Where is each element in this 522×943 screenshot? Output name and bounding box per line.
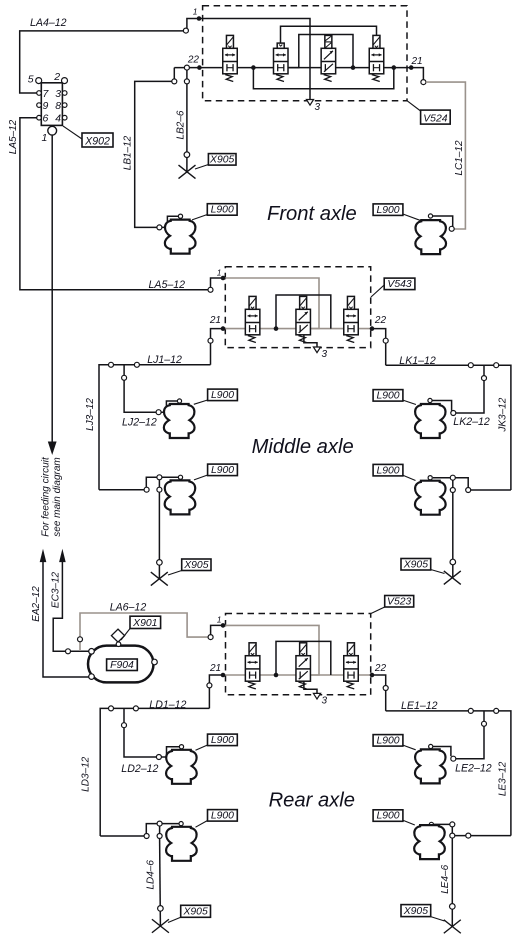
termination X905 (mid left) xyxy=(151,572,168,586)
wire pin21 exit (rear) xyxy=(209,675,223,708)
svg-text:3: 3 xyxy=(322,349,328,360)
dashed enclosure V543 (middle axle valve block) xyxy=(225,267,370,348)
leader line X905 (rear right) xyxy=(431,917,445,921)
label box V543 xyxy=(384,278,415,290)
leader line L900 (mid right upper) xyxy=(403,400,416,404)
wire LK (JK3) to bellows xyxy=(471,489,511,491)
svg-text:LK1–12: LK1–12 xyxy=(399,355,436,367)
terminal circle tee (rear left) xyxy=(122,723,127,728)
leader line L900 (rear left upper) xyxy=(196,745,208,750)
wire LJ1-12 xyxy=(99,365,211,490)
solenoid valve V1 (front) xyxy=(223,35,238,81)
wire tee to LD2-12 xyxy=(124,708,157,757)
terminal circle pin22 exit (middle) xyxy=(383,338,388,343)
svg-text:EC3–12: EC3–12 xyxy=(50,571,61,608)
air spring L900 (front right) xyxy=(415,220,446,254)
terminal circle tee (rear right) xyxy=(482,721,487,726)
leader line X905 (mid left) xyxy=(168,571,182,576)
label box L900 (mid right upper) xyxy=(373,390,403,402)
svg-text:1: 1 xyxy=(193,7,198,17)
svg-text:LJ2–12: LJ2–12 xyxy=(122,417,157,429)
terminal circle LJ2 at bellows xyxy=(156,410,161,415)
wire exhaust (middle) xyxy=(304,335,317,347)
leader line X902 xyxy=(63,126,82,139)
junction dot C (front rail) xyxy=(392,65,397,70)
wire pilot line valve2-valve4 (front) xyxy=(281,26,377,43)
terminal circle LA5 at middle block xyxy=(208,287,213,292)
junction dot pin21 (middle) xyxy=(221,326,226,331)
wire pin21 exit (front) xyxy=(411,68,423,80)
svg-text:LE3–12: LE3–12 xyxy=(498,761,509,796)
label box L900 (mid left upper) xyxy=(208,389,238,401)
svg-text:6: 6 xyxy=(43,113,49,125)
connector circles LE1-12 xyxy=(468,708,473,713)
wire corner to pipe (mid right lower) xyxy=(433,478,468,488)
wire tee to LK2-12 xyxy=(456,365,484,413)
svg-text:L900: L900 xyxy=(376,465,399,476)
wire LA5-12 xyxy=(20,118,211,290)
pilot valve V2 (front) xyxy=(274,43,289,81)
terminal circle LE2 at bellows xyxy=(451,756,456,761)
label box L900 (front left) xyxy=(207,204,237,216)
terminal circle LC1 xyxy=(421,80,426,85)
svg-text:EA2–12: EA2–12 xyxy=(31,586,42,622)
svg-text:LE2–12: LE2–12 xyxy=(455,763,492,775)
wire valve2-valve3 bypass (front) xyxy=(288,35,353,68)
terminal circle X901 xyxy=(116,642,121,647)
label box X905 (rear left) xyxy=(181,905,211,917)
rail wire 21-22 (middle, gray) xyxy=(223,328,372,330)
leader line L900 (rear right lower) xyxy=(403,820,415,825)
leader line L900 (front left) xyxy=(192,215,207,220)
svg-text:LD1–12: LD1–12 xyxy=(149,699,186,711)
exhaust port 3 (front) xyxy=(306,100,313,106)
wire pin1 to valve2 (middle, gray) xyxy=(223,278,319,329)
terminal circle LA4-12 at block xyxy=(183,28,188,33)
connector circles LD1-12 xyxy=(109,706,114,711)
leader line X905 (mid right) xyxy=(431,570,445,574)
svg-text:21: 21 xyxy=(411,56,423,67)
air spring L900 (middle left lower) xyxy=(165,480,196,514)
svg-text:LJ3–12: LJ3–12 xyxy=(85,398,96,431)
pipe to bellows (front left) xyxy=(162,216,178,227)
wire to X905 (mid right) xyxy=(452,480,454,487)
terminal circle bellows top (mid right lower) xyxy=(428,476,432,480)
leader line X905 (rear left) xyxy=(168,917,181,922)
svg-text:LE1–12: LE1–12 xyxy=(401,700,438,712)
svg-text:LB1–12: LB1–12 xyxy=(123,135,134,170)
svg-text:Middle axle: Middle axle xyxy=(252,436,354,458)
wire tee to LE2-12 xyxy=(456,711,484,759)
leader line L900 (mid left upper) xyxy=(194,400,208,404)
svg-text:X905: X905 xyxy=(183,560,208,571)
wire LB2-6 xyxy=(186,70,188,172)
svg-text:5: 5 xyxy=(28,74,34,86)
label box L900 (rear left upper) xyxy=(208,734,238,746)
svg-text:L900: L900 xyxy=(211,390,234,401)
svg-text:3: 3 xyxy=(315,102,321,113)
svg-text:3: 3 xyxy=(322,696,328,707)
terminal circle LK2 at bellows xyxy=(451,411,456,416)
svg-text:LD4–6: LD4–6 xyxy=(146,860,157,890)
terminal circle LB1 at bellows xyxy=(157,225,162,230)
pipe to bellows (rear right upper) xyxy=(431,747,451,757)
svg-text:L900: L900 xyxy=(376,205,399,216)
leader line X901 xyxy=(121,629,130,641)
terminal circle pin21 exit (middle) xyxy=(208,338,213,343)
connector circle LA6 left xyxy=(78,637,83,642)
solenoid valve V2 (middle) xyxy=(296,296,311,342)
solenoid valve V4 (front) xyxy=(369,35,384,81)
junction dot rail (rear) xyxy=(274,673,279,678)
svg-text:For feeding circuit: For feeding circuit xyxy=(41,456,52,537)
connector circle EC3 xyxy=(66,649,71,654)
connector circles X905 branch (mid right) xyxy=(450,475,455,480)
wire LK1-12 xyxy=(386,365,511,490)
wire pin22 exit to LB1-12 xyxy=(173,68,175,82)
wire pin1 to valve2 (rear, gray) xyxy=(223,625,319,675)
leader line L900 (rear right upper) xyxy=(403,745,416,750)
terminal circle bellows top (mid left lower) xyxy=(178,475,182,479)
dashed enclosure V523 (rear axle valve block) xyxy=(226,614,371,695)
svg-text:LD3–12: LD3–12 xyxy=(81,756,92,791)
dashed enclosure V524 (front axle valve block) xyxy=(203,6,407,101)
wire exhaust (rear) xyxy=(304,681,317,693)
junction dot pin1 (middle) xyxy=(221,276,226,281)
svg-text:JK3–12: JK3–12 xyxy=(498,397,509,432)
reservoir F904 xyxy=(88,646,154,683)
svg-text:1: 1 xyxy=(217,268,222,278)
arrow up EA2-12 xyxy=(40,549,47,562)
terminal circle bellows top (rear left lower) xyxy=(179,822,183,826)
terminal circle LB2 upper xyxy=(184,79,189,84)
junction dot rail (middle) xyxy=(274,326,279,331)
terminal circle X905 (mid right) xyxy=(450,559,456,565)
junction dot pin21 (front) xyxy=(409,65,414,70)
terminal circle tee (middle left) xyxy=(122,375,127,380)
terminal circle LD2 at bellows xyxy=(156,755,161,760)
label box X905 (front) xyxy=(208,154,236,166)
svg-text:1: 1 xyxy=(42,132,48,144)
svg-text:LD2–12: LD2–12 xyxy=(121,763,158,775)
air spring L900 (front left) xyxy=(165,220,196,254)
svg-text:L900: L900 xyxy=(211,465,234,476)
terminal circle bellows top (rear right upper) xyxy=(429,744,433,748)
svg-text:see main diagram: see main diagram xyxy=(52,457,63,536)
svg-text:X905: X905 xyxy=(403,559,428,570)
terminal circle LD3 end xyxy=(144,834,149,839)
svg-text:L900: L900 xyxy=(376,811,399,822)
wire pin22 exit (rear) xyxy=(372,675,386,711)
terminal circle bellows top (front left) xyxy=(178,214,182,218)
wire corner to pipe (rear right lower) xyxy=(434,824,452,833)
label box L900 (rear right upper) xyxy=(373,735,403,747)
solenoid valve V2 (rear) xyxy=(296,643,311,689)
termination X905 (front) xyxy=(179,165,196,179)
leader line V543 xyxy=(371,285,384,297)
wire tee to LJ2-12 xyxy=(124,365,156,412)
terminal circle X905 (rear right) xyxy=(450,904,456,910)
terminal circle F904 lower left xyxy=(89,674,95,680)
svg-text:22: 22 xyxy=(374,315,387,326)
air spring L900 (middle right upper) xyxy=(415,404,446,438)
svg-text:V523: V523 xyxy=(387,596,411,607)
pipe to bellows (rear left upper) xyxy=(161,747,179,757)
wire bypass to valve3 (rear) xyxy=(276,641,331,675)
leader line X905 (front) xyxy=(195,165,208,170)
svg-text:21: 21 xyxy=(209,663,221,674)
svg-text:LJ1–12: LJ1–12 xyxy=(147,354,182,366)
exhaust port 3 (rear) xyxy=(313,693,320,699)
terminal circle rail (front left) xyxy=(184,65,189,70)
termination X905 (rear right) xyxy=(444,920,461,934)
svg-text:LA5–12: LA5–12 xyxy=(8,119,19,154)
connector X902 xyxy=(28,71,68,144)
air spring L900 (rear right upper) xyxy=(415,749,446,783)
label box X905 (mid right) xyxy=(401,559,431,571)
junction dot pin22 (rear) xyxy=(370,673,375,678)
svg-text:L900: L900 xyxy=(376,391,399,402)
wire LJ3-12 to bellows xyxy=(99,489,144,491)
svg-text:V543: V543 xyxy=(387,279,411,290)
wire LD1-12 xyxy=(100,708,209,836)
terminal circle bellows top (mid right upper) xyxy=(428,398,432,402)
rail wire 22-21 (front) xyxy=(174,67,412,69)
svg-text:Front axle: Front axle xyxy=(267,203,357,225)
label box L900 (mid right lower) xyxy=(373,464,403,476)
terminal circle bellows top (mid left upper) xyxy=(177,399,181,403)
termination X905 (rear left) xyxy=(152,919,169,933)
svg-text:2: 2 xyxy=(53,71,60,83)
wire lower bypass (front) xyxy=(253,68,393,89)
connector circles LE4 branch xyxy=(450,822,455,827)
wire pin1 to exhaust node (front) xyxy=(199,19,310,100)
svg-text:9: 9 xyxy=(43,100,49,112)
wire LB1-12 xyxy=(135,81,172,227)
wire to X905 (mid left) xyxy=(158,480,160,487)
connector circles LD4 branch xyxy=(157,821,162,826)
label box L900 (rear right lower) xyxy=(373,810,403,822)
solenoid valve V1 (rear) xyxy=(245,643,260,689)
rail wire 21-22 (rear, gray) xyxy=(223,674,372,676)
svg-text:1: 1 xyxy=(217,615,222,625)
svg-text:LA4–12: LA4–12 xyxy=(30,17,67,29)
leader line L900 (mid right lower) xyxy=(403,475,416,480)
wire LA4 stub to pin1 xyxy=(187,19,199,29)
connector circles LK1-12 xyxy=(468,363,473,368)
terminal circle X905 (mid left) xyxy=(157,560,163,566)
svg-text:LB2–6: LB2–6 xyxy=(176,110,187,139)
air spring L900 (middle right lower) xyxy=(415,481,446,515)
leader line V524 xyxy=(407,101,421,111)
svg-text:V524: V524 xyxy=(423,114,447,125)
solenoid valve V1 (middle) xyxy=(245,296,260,342)
svg-text:X901: X901 xyxy=(132,618,157,629)
label box V523 xyxy=(385,596,414,608)
label box L900 (rear left lower) xyxy=(208,810,238,822)
wire pin21 exit (middle) xyxy=(211,329,224,365)
wire LC1-12 (gray) xyxy=(426,82,466,229)
air spring L900 (rear left upper) xyxy=(166,750,197,784)
label box X905 (rear right) xyxy=(401,905,431,917)
terminal circle LJ3 end xyxy=(144,487,149,492)
connector circles X905 branch (mid left) xyxy=(157,475,162,480)
label box V524 xyxy=(421,110,451,124)
svg-text:L900: L900 xyxy=(211,205,234,216)
pipe to bellows (front right) xyxy=(431,216,453,226)
svg-text:X902: X902 xyxy=(84,135,110,147)
terminal circle bellows top (front right) xyxy=(428,214,432,218)
label box L900 (front right) xyxy=(373,204,403,216)
terminal circle F904 right xyxy=(152,659,158,665)
wire to X905 (rear left, LD4-6) xyxy=(159,826,161,833)
junction dot pin22 (front) xyxy=(197,65,202,70)
leader line L900 (rear left lower) xyxy=(196,821,208,828)
terminal circle JK3 end xyxy=(466,488,471,493)
wire EA2-12 xyxy=(43,560,89,677)
label box X902 xyxy=(82,133,113,147)
svg-text:L900: L900 xyxy=(211,735,234,746)
arrow down (to feeding circuit) xyxy=(48,442,57,456)
air spring L900 (rear right lower) xyxy=(414,825,445,859)
svg-text:4: 4 xyxy=(55,113,61,125)
wire to X905 (rear right, LE4-6) xyxy=(451,838,453,926)
wire pin22 exit (middle) xyxy=(372,329,386,366)
wire LA6-12 (gray) xyxy=(80,613,208,651)
connector X901 diamond xyxy=(111,629,124,642)
wire LA6 stub to pin1 (rear) xyxy=(211,625,223,634)
solenoid valve V3 (rear) xyxy=(344,643,359,689)
terminal circle LB1 corner xyxy=(172,79,177,84)
wire X902 pin1 feeding xyxy=(51,135,53,442)
wire LE1-12 xyxy=(386,711,511,836)
terminal circle LB2 lower xyxy=(184,152,190,158)
svg-text:22: 22 xyxy=(187,55,200,66)
pipe to bellows (middle left upper) xyxy=(161,401,177,412)
label box F904 xyxy=(107,659,138,671)
arrow up EC3-12 xyxy=(59,549,66,562)
terminal circle bellows top (rear right lower) xyxy=(429,822,433,826)
wire EC3-12 xyxy=(53,560,89,651)
terminal circle bellows top (rear left upper) xyxy=(179,745,183,749)
svg-text:LK2–12: LK2–12 xyxy=(453,416,490,428)
svg-text:Rear axle: Rear axle xyxy=(269,790,355,812)
wire bypass to valve3 (middle) xyxy=(276,295,331,329)
exhaust port 3 (middle) xyxy=(313,347,320,353)
air spring L900 (rear left lower) xyxy=(166,827,197,861)
svg-text:X905: X905 xyxy=(182,907,207,918)
wire LA5 stub to pin1 (middle) xyxy=(211,278,224,287)
label box X901 xyxy=(130,616,161,629)
svg-text:21: 21 xyxy=(209,315,221,326)
svg-text:X905: X905 xyxy=(403,906,428,917)
svg-text:L900: L900 xyxy=(376,736,399,747)
terminal circle F904 upper left xyxy=(89,649,95,655)
wire LA4-12 xyxy=(20,31,186,93)
svg-text:LA6–12: LA6–12 xyxy=(110,602,147,614)
svg-text:X905: X905 xyxy=(209,155,234,166)
svg-text:3: 3 xyxy=(55,88,61,100)
svg-text:22: 22 xyxy=(374,663,387,674)
wire corner to pipe (mid left lower) xyxy=(146,477,178,487)
terminal circle tee (middle right) xyxy=(482,376,487,381)
solenoid valve V3 (middle) xyxy=(344,296,359,342)
svg-text:LC1–12: LC1–12 xyxy=(454,140,465,175)
terminal circle LC1 at bellows xyxy=(449,226,454,231)
terminal circle X905 (rear left) xyxy=(158,906,164,912)
junction dot B (front rail) xyxy=(351,65,356,70)
leader line V523 xyxy=(371,607,385,614)
svg-text:L900: L900 xyxy=(211,811,234,822)
connector circles LJ1-12 xyxy=(109,362,114,367)
svg-text:LA5–12: LA5–12 xyxy=(149,279,186,291)
termination X905 (mid right) xyxy=(444,571,461,585)
wire corner to pipe (rear left lower) xyxy=(146,824,178,834)
terminal circle pin21 exit (rear) xyxy=(207,683,212,688)
svg-text:8: 8 xyxy=(55,100,61,112)
junction dot A (front rail) xyxy=(251,65,256,70)
junction dot pin1 (front) xyxy=(197,16,202,21)
label box X905 (mid left) xyxy=(182,559,211,571)
svg-text:F904: F904 xyxy=(110,660,134,671)
terminal circle LE3 end xyxy=(466,833,471,838)
junction dot pin22 (middle) xyxy=(370,326,375,331)
pipe to bellows (middle right upper) xyxy=(430,401,452,411)
wire LD3-12 to bellows xyxy=(100,835,144,837)
wire LE3-12 to bellows xyxy=(455,835,511,837)
svg-text:LE4–6: LE4–6 xyxy=(440,864,451,893)
terminal circle pin22 exit (rear) xyxy=(383,686,388,691)
leader line L900 (front right) xyxy=(403,214,421,221)
terminal circle LA6 at rear block xyxy=(208,635,213,640)
solenoid valve V3 (front) xyxy=(321,35,336,81)
junction dot pin1 (rear) xyxy=(221,623,226,628)
label box L900 (mid left lower) xyxy=(208,464,238,476)
junction dot pin21 (rear) xyxy=(221,673,226,678)
air spring L900 (middle left upper) xyxy=(164,404,195,438)
leader line L900 (mid left lower) xyxy=(194,475,208,480)
